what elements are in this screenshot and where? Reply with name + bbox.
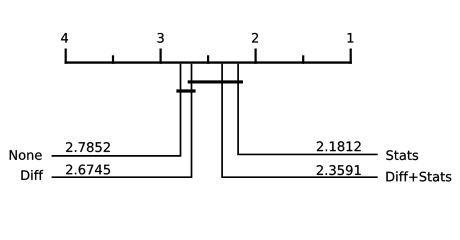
- connector Diff: [52, 64, 192, 177]
- connector Stats: [238, 64, 378, 155]
- clique bar None-Diff: [176, 89, 195, 92]
- clique bar Diff-Stats: [188, 80, 243, 83]
- label None: [10, 150, 42, 160]
- axis label 3: [157, 33, 163, 43]
- value Diff 2.6745: [66, 165, 110, 175]
- minor tick 2.5: [207, 55, 209, 64]
- label Diff: [21, 170, 43, 180]
- major tick 2: [255, 49, 257, 64]
- label Diff+Stats: [386, 171, 451, 181]
- value Diff+Stats 2.3591: [317, 165, 361, 175]
- minor tick 1.5: [302, 55, 304, 64]
- axis label 4: [61, 33, 68, 43]
- axis label 2: [252, 33, 258, 43]
- major tick 3: [160, 49, 162, 64]
- connector None: [52, 64, 181, 156]
- axis label 1: [348, 33, 354, 43]
- major tick 4: [65, 49, 67, 64]
- minor tick 3.5: [112, 55, 114, 64]
- axis main line: [65, 61, 352, 63]
- major tick 1: [350, 49, 352, 64]
- label Stats: [386, 150, 418, 160]
- value Stats 2.1812: [317, 141, 361, 151]
- connector Diff+Stats: [222, 64, 378, 177]
- value None 2.7852: [66, 142, 110, 152]
